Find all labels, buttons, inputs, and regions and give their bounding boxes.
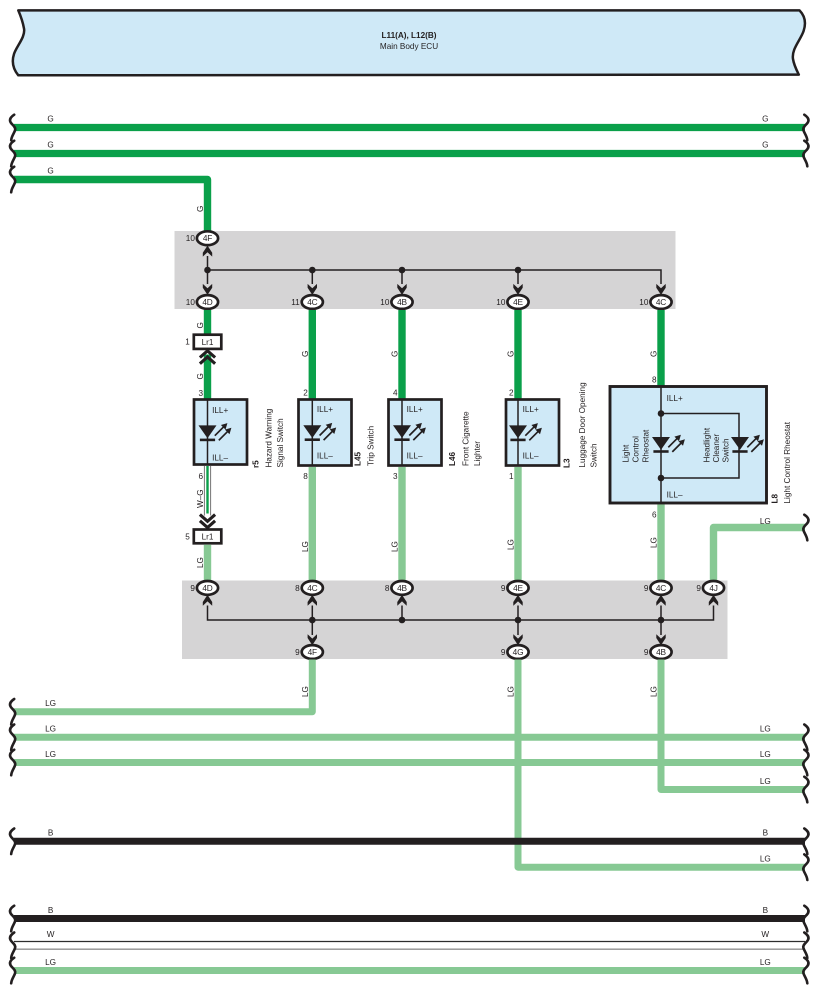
bus line lower band <box>208 606 714 636</box>
svg-text:Main Body ECU: Main Body ECU <box>380 42 438 51</box>
svg-text:8: 8 <box>295 584 300 593</box>
svg-text:8: 8 <box>385 584 390 593</box>
svg-text:10: 10 <box>186 234 196 243</box>
wire G 4D to Lr1 <box>196 310 208 335</box>
connector 4B pin 8 lower <box>385 581 413 595</box>
connector band upper <box>175 231 676 309</box>
svg-text:4C: 4C <box>307 583 317 593</box>
svg-text:LG: LG <box>760 958 771 967</box>
svg-text:LG: LG <box>45 699 56 708</box>
wire LG Lr1 to 4D <box>196 545 208 582</box>
svg-text:G: G <box>762 141 768 150</box>
svg-text:4C: 4C <box>307 297 317 307</box>
svg-text:G: G <box>196 373 205 379</box>
svg-text:2: 2 <box>509 389 514 398</box>
svg-text:4F: 4F <box>203 233 212 243</box>
switch L3 Luggage Door Opening Switch <box>506 400 559 466</box>
svg-text:11: 11 <box>291 298 300 307</box>
wire LG L46 pin 3 to 4B <box>391 467 403 582</box>
svg-text:4B: 4B <box>397 297 407 307</box>
svg-text:4C: 4C <box>656 583 666 593</box>
svg-text:LG: LG <box>196 557 205 568</box>
connector 4F pin 9 out <box>295 645 323 659</box>
wire G 4C to L45 pin 2 <box>301 310 313 400</box>
svg-text:5: 5 <box>185 532 190 541</box>
wire LG bus bottom <box>10 958 809 984</box>
connector 4E pin 9 lower <box>501 581 529 595</box>
svg-text:Luggage Door Opening: Luggage Door Opening <box>578 382 587 468</box>
wire LG right edge to 4J <box>714 515 809 582</box>
svg-text:G: G <box>47 115 53 124</box>
svg-text:G: G <box>762 115 768 124</box>
svg-text:LG: LG <box>760 750 771 759</box>
rheostat L8 Light Control Rheostat <box>610 387 767 504</box>
svg-text:L46: L46 <box>448 451 457 466</box>
svg-text:LG: LG <box>760 777 771 786</box>
svg-text:ILL–: ILL– <box>667 490 683 499</box>
junction Lr1 pin 5 <box>185 530 221 544</box>
connector arrows lower band <box>203 595 718 645</box>
svg-text:LG: LG <box>507 539 516 550</box>
svg-text:Front Cigarette: Front Cigarette <box>462 411 471 466</box>
svg-text:9: 9 <box>644 584 649 593</box>
switch r5 Hazard Warning Signal Switch <box>194 400 247 465</box>
svg-text:G: G <box>47 141 53 150</box>
svg-text:Switch: Switch <box>590 443 599 468</box>
wire G branch to 4F <box>10 167 208 232</box>
svg-text:G: G <box>391 351 400 357</box>
bus line upper band <box>208 256 662 284</box>
svg-text:4C: 4C <box>656 297 666 307</box>
svg-text:4J: 4J <box>709 583 717 593</box>
svg-text:ILL+: ILL+ <box>523 405 539 414</box>
switch L46 Front Cigarette Lighter <box>389 400 442 466</box>
svg-text:ILL+: ILL+ <box>212 406 228 415</box>
svg-text:9: 9 <box>295 648 300 657</box>
wire LG L3 pin 1 to 4E <box>507 467 519 582</box>
chevron splice up <box>200 351 215 358</box>
connector arrows upper band <box>203 246 666 295</box>
wire LG bus 3 <box>10 750 809 776</box>
connector 4D pin 10 <box>186 295 218 309</box>
svg-text:LG: LG <box>760 725 771 734</box>
svg-text:9: 9 <box>501 584 506 593</box>
svg-text:LG: LG <box>45 750 56 759</box>
svg-text:L8: L8 <box>771 493 780 503</box>
svg-text:4G: 4G <box>513 647 524 657</box>
svg-text:LG: LG <box>760 517 771 526</box>
svg-text:ILL+: ILL+ <box>407 405 423 414</box>
wire B bus <box>10 829 809 855</box>
svg-text:Cleaner: Cleaner <box>712 434 721 463</box>
svg-text:ILL+: ILL+ <box>667 394 683 403</box>
svg-text:Light: Light <box>622 444 631 462</box>
svg-text:Lr1: Lr1 <box>202 533 214 542</box>
svg-text:r5: r5 <box>251 460 260 468</box>
wire LG 4F to left edge <box>10 660 312 725</box>
svg-text:4: 4 <box>393 389 398 398</box>
svg-text:9: 9 <box>501 648 506 657</box>
connector 4B pin 10 <box>380 295 412 309</box>
chevron splice down <box>200 515 215 522</box>
svg-text:Signal Switch: Signal Switch <box>276 418 285 468</box>
svg-text:4B: 4B <box>397 583 407 593</box>
svg-text:8: 8 <box>652 376 657 385</box>
svg-text:W: W <box>47 930 55 939</box>
svg-text:9: 9 <box>644 648 649 657</box>
svg-text:Lighter: Lighter <box>473 441 482 466</box>
svg-text:Lr1: Lr1 <box>202 338 214 347</box>
junction Lr1 pin 1 <box>185 335 221 349</box>
ECU banner L11(A), L12(B) Main Body ECU <box>13 10 805 75</box>
svg-text:LG: LG <box>391 541 400 552</box>
svg-text:B: B <box>763 906 769 915</box>
wire G 4B to L46 pin 4 <box>391 310 403 400</box>
svg-text:LG: LG <box>301 686 310 697</box>
svg-text:G: G <box>507 351 516 357</box>
connector 4C pin 10 right <box>639 295 671 309</box>
svg-text:W: W <box>761 930 769 939</box>
wire LG 4B to right edge <box>650 660 809 803</box>
svg-text:3: 3 <box>393 472 398 481</box>
svg-text:6: 6 <box>198 472 203 481</box>
svg-text:Rheostat: Rheostat <box>642 429 651 462</box>
svg-text:10: 10 <box>380 298 390 307</box>
svg-text:L3: L3 <box>563 458 572 468</box>
svg-text:LG: LG <box>45 958 56 967</box>
svg-text:1: 1 <box>509 472 514 481</box>
wire G 4E to L3 pin 2 <box>507 310 519 400</box>
svg-text:B: B <box>48 906 54 915</box>
svg-text:Switch: Switch <box>722 438 731 463</box>
svg-text:6: 6 <box>652 511 657 520</box>
svg-text:4D: 4D <box>202 583 212 593</box>
svg-text:8: 8 <box>303 472 308 481</box>
svg-text:LG: LG <box>301 541 310 552</box>
svg-text:LG: LG <box>760 855 771 864</box>
svg-text:9: 9 <box>696 584 701 593</box>
svg-text:Light Control Rheostat: Light Control Rheostat <box>783 421 792 503</box>
svg-text:Hazard Warning: Hazard Warning <box>265 408 274 467</box>
wire G bus 2 <box>10 141 809 167</box>
svg-text:LG: LG <box>45 725 56 734</box>
connector 4C pin 8 lower <box>295 581 323 595</box>
wire G bus 1 <box>10 115 809 141</box>
wire G Lr1 to r5 pin 3 <box>196 355 208 401</box>
connector band lower <box>182 581 728 660</box>
svg-text:LG: LG <box>650 537 659 548</box>
svg-text:B: B <box>48 829 54 838</box>
svg-text:Trip Switch: Trip Switch <box>367 425 376 466</box>
wire LG L45 pin 8 to 4C <box>301 467 313 582</box>
svg-text:Control: Control <box>632 436 641 463</box>
svg-text:ILL–: ILL– <box>407 451 423 460</box>
connector 4G pin 9 out <box>501 645 529 659</box>
svg-text:ILL–: ILL– <box>523 451 539 460</box>
svg-text:4B: 4B <box>656 647 666 657</box>
wire B bus bottom <box>10 906 809 932</box>
svg-text:G: G <box>650 351 659 357</box>
svg-text:ILL–: ILL– <box>317 451 333 460</box>
svg-text:L11(A), L12(B): L11(A), L12(B) <box>381 31 436 40</box>
svg-text:Headlight: Headlight <box>703 427 712 462</box>
connector 4D pin 9 lower <box>190 581 218 595</box>
svg-text:1: 1 <box>185 338 190 347</box>
svg-text:B: B <box>763 829 769 838</box>
svg-text:G: G <box>196 322 205 328</box>
wire W bus <box>10 930 809 958</box>
switch L45 Trip Switch <box>299 400 352 466</box>
svg-text:LG: LG <box>507 686 516 697</box>
svg-text:10: 10 <box>186 298 196 307</box>
svg-text:ILL–: ILL– <box>212 453 228 462</box>
connector 4B pin 9 out <box>644 645 672 659</box>
svg-text:ILL+: ILL+ <box>317 405 333 414</box>
svg-text:2: 2 <box>303 389 308 398</box>
connector 4E pin 10 <box>496 295 528 309</box>
wire LG bus 2 <box>10 725 809 751</box>
svg-text:W–G: W–G <box>196 489 205 508</box>
svg-text:L45: L45 <box>353 451 362 466</box>
svg-text:G: G <box>301 351 310 357</box>
svg-text:LG: LG <box>650 686 659 697</box>
wire W-G r5 pin 6 to Lr1 pin 5 <box>196 466 211 517</box>
svg-text:9: 9 <box>190 584 195 593</box>
connector 4F pin 10 <box>186 231 218 245</box>
junction dots upper band <box>204 267 521 274</box>
svg-text:G: G <box>196 206 205 212</box>
svg-text:3: 3 <box>198 389 203 398</box>
svg-text:10: 10 <box>639 298 649 307</box>
svg-text:4E: 4E <box>513 297 523 307</box>
wire LG 4G to right edge <box>507 660 809 881</box>
connector 4C pin 9 lower <box>644 581 672 595</box>
junction dots lower band <box>309 617 664 624</box>
svg-text:4E: 4E <box>513 583 523 593</box>
svg-text:4F: 4F <box>308 647 317 657</box>
wire LG L8 pin 6 to 4C <box>650 505 662 582</box>
connector 4J pin 9 <box>696 581 724 595</box>
svg-text:10: 10 <box>496 298 506 307</box>
svg-text:G: G <box>47 167 53 176</box>
wire G 4C to L8 pin 8 <box>650 310 662 387</box>
connector 4C pin 11 <box>291 295 323 309</box>
svg-text:4D: 4D <box>202 297 212 307</box>
